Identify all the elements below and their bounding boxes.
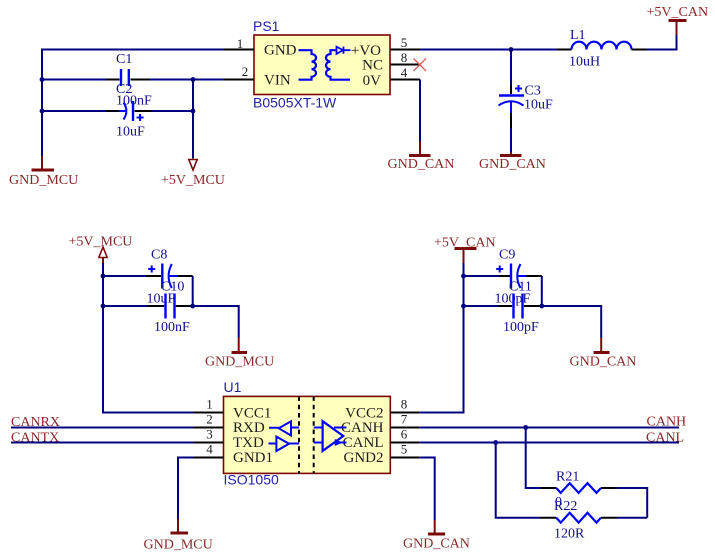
svg-text:1: 1 (237, 36, 244, 51)
node junction (463.5,306) (461, 304, 466, 309)
pin 8 VCC2 (390, 412, 419, 414)
svg-text:TXD: TXD (233, 435, 264, 451)
wire R22 right to link (617, 517, 647, 519)
pin 8 NC stub (390, 64, 420, 66)
wire C3 to ground (510, 128, 512, 152)
node junction (42,111) (40, 109, 45, 114)
pin 4 GND1 (194, 457, 224, 459)
svg-text:C2: C2 (116, 82, 132, 97)
capacitor C2 10uF polarized (106, 82, 152, 140)
svg-text:PS1: PS1 (253, 18, 280, 34)
svg-text:100pF: 100pF (503, 320, 539, 335)
svg-text:CANH: CANH (647, 415, 687, 430)
ground GND_CAN (under PS1 pin 4) (388, 141, 455, 172)
svg-text:6: 6 (401, 427, 408, 442)
pin 5 +VO stub (390, 49, 420, 51)
buffer RX (receiver triangle) (269, 421, 299, 435)
svg-text:GND_CAN: GND_CAN (403, 537, 470, 552)
capacitor C1 100nF (106, 52, 152, 109)
svg-text:R21: R21 (556, 470, 579, 485)
node junction (103,306) (101, 304, 106, 309)
svg-text:NC: NC (362, 58, 383, 74)
wire CANTX net (11, 442, 194, 444)
power port +5V_MCU (mid) (69, 235, 133, 264)
svg-text:1: 1 (206, 397, 213, 412)
wire pin4 0V to ground (419, 80, 421, 142)
pin 1 VCC1 (194, 412, 224, 414)
ground GND_CAN (under C3) (479, 152, 546, 172)
svg-text:+5V_CAN: +5V_CAN (647, 5, 709, 20)
node junction CANH (525.7,427.5) (523, 425, 528, 430)
ground GND_MCU (bottom) (144, 519, 213, 553)
svg-text:RXD: RXD (233, 420, 265, 436)
svg-text:C1: C1 (116, 52, 132, 67)
ground GND_MCU (top left) (9, 156, 78, 188)
wire CANL drop to R22 (496, 443, 540, 518)
capacitor C9 100pF polarized (495, 248, 542, 307)
pin 3 TXD (194, 442, 224, 444)
svg-text:4: 4 (401, 65, 408, 80)
svg-text:7: 7 (401, 412, 408, 427)
resistor R21 (540, 470, 617, 511)
svg-text:+5V_MCU: +5V_MCU (69, 235, 133, 250)
svg-text:U1: U1 (224, 379, 242, 395)
svg-text:+5V_MCU: +5V_MCU (161, 173, 225, 188)
wire +5V_MCU vertical drop (192, 80, 194, 159)
pin 6 CANL (390, 442, 419, 444)
svg-text:10uF: 10uF (524, 98, 553, 113)
wire +VO net pin5 to L1 (420, 49, 557, 51)
svg-text:10uF: 10uF (116, 125, 145, 140)
power port +5V_MCU (top) (161, 160, 225, 189)
wire C2 to +5V_MCU drop (152, 110, 193, 112)
inductor L1 10uH (557, 28, 647, 70)
IC U1 ISO1050 (224, 379, 391, 488)
svg-text:CANTX: CANTX (11, 431, 59, 446)
power module PS1 B0505XT-1W (253, 18, 390, 111)
svg-text:10uH: 10uH (569, 55, 600, 70)
node junction (193,79.5) (191, 77, 196, 82)
node junction (103,276) (101, 274, 106, 279)
wire GND_MCU bus vertical + pin1 net (42, 50, 224, 157)
svg-text:R22: R22 (554, 499, 577, 514)
power port +5V_CAN (top right) (647, 5, 709, 35)
node junction (541.8,306) (539, 304, 544, 309)
wire C9 row left (464, 275, 500, 277)
wire +5V_MCU bus down to U1 pin 1 (103, 263, 194, 413)
svg-text:VIN: VIN (264, 73, 291, 89)
node junction CANL (495.7,442.5) (493, 440, 498, 445)
svg-text:2: 2 (206, 412, 213, 427)
wire GND2 to ground (419, 458, 434, 521)
svg-text:GND_MCU: GND_MCU (9, 173, 78, 188)
svg-text:GND_CAN: GND_CAN (570, 355, 637, 370)
svg-text:C11: C11 (509, 280, 532, 295)
driver output triangle (CAN side) (314, 421, 347, 451)
wire VIN net left of C1 (42, 79, 106, 81)
capacitor C11 100pF (498, 280, 542, 336)
svg-text:B0505XT-1W: B0505XT-1W (253, 95, 337, 111)
wire C11 row left (464, 305, 499, 307)
svg-text:GND1: GND1 (233, 450, 273, 466)
ground GND_CAN (mid) (570, 338, 637, 370)
transformer windings inside PS1 (299, 50, 351, 79)
svg-text:GND2: GND2 (344, 450, 384, 466)
capacitor C8 10uF polarized (146, 248, 193, 307)
resistor R22 120R (540, 499, 617, 542)
wire C8 right drop (192, 276, 194, 306)
node junction (192.7,306) (190, 304, 195, 309)
ground GND_CAN (bottom) (403, 520, 470, 552)
wire CANH drop to R21 (526, 428, 540, 489)
svg-text:GND_CAN: GND_CAN (479, 157, 546, 172)
no-connect X on pin 8 (414, 59, 427, 72)
wire CANH net (419, 427, 679, 429)
wire +5V_CAN bus down to U1 pin 8 (419, 263, 463, 413)
buffer TX (driver triangle small) (269, 437, 300, 451)
svg-text:3: 3 (206, 427, 213, 442)
node junction (463.5,276) (461, 274, 466, 279)
svg-text:L1: L1 (570, 28, 586, 43)
svg-text:CANRX: CANRX (11, 415, 60, 430)
power port +5V_CAN (mid) (434, 236, 496, 264)
svg-text:8: 8 (401, 397, 408, 412)
wire C11 to GND_CAN corner (542, 306, 601, 338)
svg-text:C8: C8 (151, 248, 167, 263)
svg-text:100nF: 100nF (154, 320, 190, 335)
wire GND1 to ground (178, 458, 194, 520)
svg-text:0V: 0V (363, 73, 382, 89)
wire C8 row left (103, 275, 146, 277)
svg-text:GND_MCU: GND_MCU (144, 538, 213, 553)
node junction (193,111) (191, 109, 196, 114)
wire junction down to C3 (510, 50, 512, 86)
pin 4 0V stub (390, 79, 420, 81)
svg-text:8: 8 (401, 50, 408, 65)
svg-text:CANH: CANH (341, 420, 384, 436)
wire C9 right drop (541, 276, 543, 306)
wire CANL net (419, 442, 679, 444)
svg-text:ISO1050: ISO1050 (224, 472, 279, 488)
pin 1 GND stub (224, 49, 255, 51)
svg-text:CANL: CANL (343, 435, 384, 451)
svg-text:5: 5 (401, 35, 408, 50)
svg-text:4: 4 (206, 442, 213, 457)
svg-text:5: 5 (401, 442, 408, 457)
svg-text:GND_CAN: GND_CAN (388, 157, 455, 172)
svg-text:GND: GND (264, 43, 297, 59)
node junction (42,79.5) (40, 77, 45, 82)
svg-text:C10: C10 (161, 280, 184, 295)
wire CANRX net (11, 427, 194, 429)
capacitor C3 10uF polarized (499, 84, 554, 129)
pin 2 VIN stub (224, 79, 255, 81)
svg-text:120R: 120R (554, 527, 585, 542)
pin 2 RXD (194, 427, 224, 429)
svg-text:GND_MCU: GND_MCU (205, 355, 274, 370)
wire R21 right to link (617, 488, 647, 518)
svg-text:2: 2 (242, 64, 249, 79)
svg-text:+5V_CAN: +5V_CAN (434, 236, 496, 251)
node junction (511,49.5) (509, 47, 514, 52)
ground GND_MCU (mid) (205, 338, 274, 370)
pin 5 GND2 (390, 457, 419, 459)
svg-text:C3: C3 (525, 84, 541, 99)
pin 7 CANH (390, 427, 419, 429)
isolation barrier dashed lines (299, 396, 314, 473)
svg-text:CANL: CANL (646, 431, 684, 446)
wire VIN net right of C1 to PS1 pin 2 (150, 79, 224, 81)
wire C10 to GND_MCU corner (193, 306, 239, 338)
svg-text:C9: C9 (499, 248, 515, 263)
wire third rail left of C2 (42, 110, 106, 112)
capacitor C10 100nF (148, 280, 193, 336)
diode inside PS1 (337, 47, 351, 54)
wire L1 to +5V_CAN (647, 35, 677, 50)
wire C10 row left (103, 305, 148, 307)
